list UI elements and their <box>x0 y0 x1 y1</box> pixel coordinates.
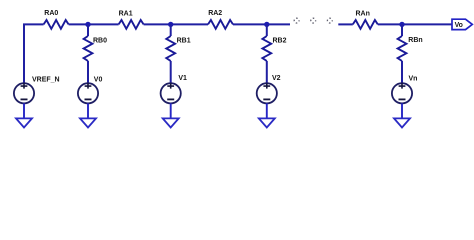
wire RBn to Vn <box>401 61 403 83</box>
ground (V0) <box>80 118 96 127</box>
svg-text:RA0: RA0 <box>44 10 58 17</box>
voltage source V1 <box>161 75 187 103</box>
wire noden down <box>401 24 403 36</box>
resistor RA0 <box>44 20 69 29</box>
ground (V1) <box>163 118 179 127</box>
wire RB1 to V1 <box>170 61 172 83</box>
svg-text:RA2: RA2 <box>208 10 222 17</box>
svg-text:RB2: RB2 <box>273 37 287 44</box>
wire segment after break <box>338 23 353 25</box>
resistor RB0 <box>84 36 93 61</box>
wire segment noden to port <box>378 23 452 25</box>
svg-text:VREF_N: VREF_N <box>32 76 60 83</box>
ground (V2) <box>259 118 275 127</box>
wire node1 down <box>170 24 172 36</box>
wire RB0 to V0 <box>87 61 89 83</box>
wire node0 down <box>87 24 89 36</box>
voltage source VREF_N <box>14 76 60 103</box>
resistor RB2 <box>262 36 271 61</box>
wire VREF_N to ground <box>23 103 25 118</box>
svg-text:RBn: RBn <box>408 37 422 44</box>
resistor RAn <box>353 20 378 29</box>
svg-text:RAn: RAn <box>356 11 370 18</box>
continuation dot 3 <box>327 18 332 23</box>
continuation dot 2 <box>311 18 316 23</box>
ground (Vn) <box>394 118 410 127</box>
voltage source V2 <box>257 75 281 103</box>
resistor RBn <box>398 36 407 61</box>
node 0 junction <box>85 22 90 27</box>
node n junction <box>399 22 404 27</box>
voltage source V0 <box>78 76 103 103</box>
svg-text:Vo: Vo <box>455 22 463 29</box>
wire RB2 to V2 <box>266 61 268 83</box>
svg-text:V1: V1 <box>178 75 187 82</box>
ground (VREF_N) <box>16 118 32 127</box>
svg-text:V2: V2 <box>272 75 281 82</box>
svg-text:RA1: RA1 <box>119 10 133 17</box>
wire Vn to ground <box>401 103 403 118</box>
wire segment node1 <box>144 23 208 25</box>
voltage source Vn <box>392 75 418 103</box>
resistor RA2 <box>208 20 233 29</box>
wire segment node2 to break <box>233 23 290 25</box>
wire node2 down <box>266 24 268 36</box>
resistor RA1 <box>119 20 144 29</box>
resistor RB1 <box>166 36 175 61</box>
port Vo <box>452 19 472 29</box>
svg-text:RB1: RB1 <box>177 37 191 44</box>
svg-text:V0: V0 <box>94 76 103 83</box>
wire segment node0 <box>69 23 119 25</box>
node 1 junction <box>168 22 173 27</box>
node 2 junction <box>264 22 269 27</box>
wire top-left corner and top segment 1 <box>24 24 44 83</box>
wire V0 to ground <box>87 103 89 118</box>
svg-text:RB0: RB0 <box>93 37 107 44</box>
continuation dot 1 <box>294 18 299 23</box>
wire V1 to ground <box>170 103 172 118</box>
svg-text:Vn: Vn <box>409 75 418 82</box>
wire V2 to ground <box>266 103 268 118</box>
